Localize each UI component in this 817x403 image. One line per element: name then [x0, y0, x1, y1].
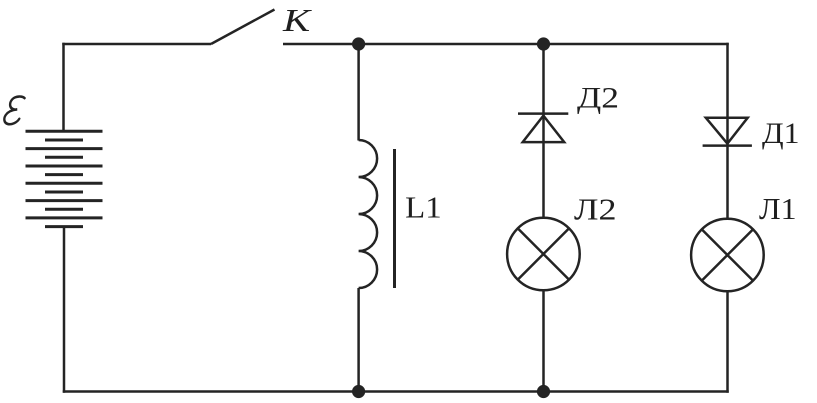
node dot bottom-left (inductor branch) — [352, 385, 365, 398]
lamp L1 circle — [691, 219, 764, 292]
svg-text:Д1: Д1 — [762, 117, 800, 150]
wire branch 3 vertical lower (lamp to bottom-right corner) — [726, 291, 729, 392]
wire inductor branch lower — [357, 288, 360, 392]
wire top horizontal (switch contact to right branch) — [283, 43, 729, 46]
lamp L1 cross — [702, 229, 753, 280]
wire top-left horizontal (battery to switch hinge) — [62, 43, 211, 46]
EMF script-E label — [4, 97, 25, 125]
node dot top-left (inductor branch) — [352, 37, 365, 50]
wire inductor branch upper — [357, 44, 360, 141]
node dot top-right (branch 2) — [537, 37, 550, 50]
lamp L2 circle — [507, 218, 580, 291]
svg-text:Д2: Д2 — [577, 81, 619, 114]
svg-text:К: К — [282, 2, 312, 38]
inductor L1 coil — [359, 140, 378, 288]
wire branch 2 upper (node to diode D2 and lamp) — [542, 44, 545, 219]
lamp L2 cross — [518, 228, 569, 279]
diode D2 cathode bar — [518, 112, 568, 115]
svg-text:L1: L1 — [405, 190, 442, 225]
wire bottom horizontal — [63, 390, 729, 393]
inductor L1 core bar — [393, 149, 396, 288]
svg-text:Л1: Л1 — [759, 191, 797, 226]
wire left vertical upper (top wire to battery) — [62, 43, 65, 132]
node dot bottom-right (branch 2) — [537, 385, 550, 398]
diode D1 cathode bar — [703, 144, 752, 147]
svg-text:Л2: Л2 — [574, 191, 617, 226]
wire branch 2 lower (lamp to bottom node) — [542, 290, 545, 391]
diode D2 triangle (pointing up) — [523, 116, 565, 143]
wire branch 3 vertical upper (top wire corner to diode D1) — [726, 43, 729, 219]
wire left vertical lower (battery to bottom wire) — [63, 227, 66, 393]
battery EMF source: plates — [26, 131, 103, 226]
switch K blade — [211, 10, 275, 45]
diode D1 triangle (pointing down) — [706, 118, 748, 144]
